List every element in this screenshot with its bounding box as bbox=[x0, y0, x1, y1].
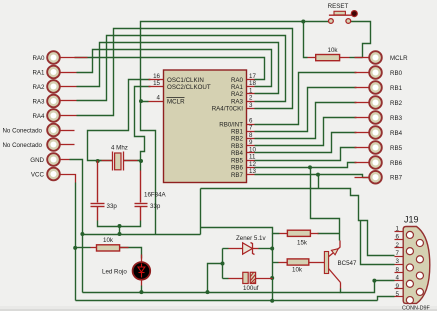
svg-text:RB6: RB6 bbox=[231, 165, 244, 172]
wire branch to J19 pin 3 bbox=[361, 221, 395, 265]
svg-text:RA0: RA0 bbox=[32, 55, 45, 62]
svg-text:No Conectado: No Conectado bbox=[2, 142, 42, 149]
capacitor 100uf electrolytic bbox=[229, 272, 273, 283]
svg-text:RA1: RA1 bbox=[32, 69, 45, 76]
junction node LED to GND rail bbox=[139, 290, 143, 294]
wire RA1 net: left pin to chip pin 18 bbox=[77, 50, 272, 87]
resistor 10k (LED series) bbox=[91, 245, 129, 251]
svg-text:18: 18 bbox=[249, 80, 256, 87]
svg-text:2: 2 bbox=[396, 242, 400, 249]
resistor 15k bbox=[280, 230, 319, 236]
left header connector pins RA0..VCC bbox=[47, 51, 60, 180]
junction node RB6 branch bbox=[308, 165, 312, 169]
svg-text:Led Rojo: Led Rojo bbox=[102, 269, 127, 276]
svg-text:10: 10 bbox=[249, 146, 256, 153]
svg-text:BC547: BC547 bbox=[338, 260, 357, 267]
left connector stubs RA0-RA4 bbox=[61, 57, 88, 59]
VCC stub bbox=[61, 175, 76, 183]
svg-text:10k: 10k bbox=[292, 267, 303, 274]
svg-text:17: 17 bbox=[249, 73, 256, 80]
wire LED bottom to GND rail bbox=[141, 286, 143, 293]
svg-text:RA3: RA3 bbox=[32, 98, 45, 105]
svg-text:OSC1/CLKIN: OSC1/CLKIN bbox=[167, 77, 204, 84]
wire crystal right to cap bbox=[140, 161, 142, 171]
LED D1 Led Rojo bbox=[133, 255, 151, 286]
svg-text:16F84A: 16F84A bbox=[144, 192, 167, 199]
svg-text:4: 4 bbox=[396, 275, 400, 282]
junction node OSC1/crystal left bbox=[96, 159, 100, 163]
wire VCC rail (bottom) bbox=[76, 300, 378, 302]
svg-text:Zener 5.1v: Zener 5.1v bbox=[236, 235, 266, 242]
wire RB6 junction down to emitter bbox=[311, 168, 340, 241]
wire 10k pullup left lead riser bbox=[304, 22, 308, 58]
svg-text:RB4: RB4 bbox=[231, 150, 244, 157]
junction node zener branch to GND rail bbox=[206, 290, 210, 294]
wire RB7 junction down to VPP line bbox=[318, 175, 320, 189]
svg-text:J19: J19 bbox=[404, 215, 419, 225]
transistor Q1 BC547 bbox=[324, 241, 340, 289]
svg-text:7: 7 bbox=[249, 125, 253, 132]
svg-text:16: 16 bbox=[153, 73, 160, 80]
svg-text:6: 6 bbox=[396, 234, 400, 241]
wire VCC rail riser to J19 pin 5 bbox=[378, 297, 395, 301]
capacitor C2 33p (right) bbox=[135, 171, 148, 221]
junction node OSC2/crystal right bbox=[139, 159, 143, 163]
svg-text:MCLR: MCLR bbox=[390, 55, 408, 62]
wire vpp network riser x=200.8 bbox=[200, 189, 202, 235]
right header connector pins MCLR..RB7 bbox=[369, 51, 382, 183]
crystal X1 4Mhz bbox=[98, 152, 141, 171]
wire branch 15k path bbox=[201, 228, 280, 234]
junction node VCC/10k bbox=[73, 246, 77, 250]
wire chip pin8 to RB2 bbox=[255, 103, 357, 139]
wire 15k right lead to transistor emitter line bbox=[318, 233, 340, 235]
wire chip pin6 to RB0 bbox=[255, 73, 357, 125]
junction node zener left bbox=[221, 262, 225, 266]
capacitor C1 33p (left) bbox=[91, 161, 105, 221]
wire OSC1 pin16 to crystal left bbox=[88, 80, 151, 161]
chip right pin stubs bbox=[247, 79, 255, 81]
junction node RB7 branch bbox=[316, 173, 320, 177]
svg-text:RB5: RB5 bbox=[231, 157, 244, 164]
svg-text:RA1: RA1 bbox=[231, 84, 244, 91]
svg-text:3: 3 bbox=[249, 102, 253, 109]
svg-text:10k: 10k bbox=[328, 47, 339, 54]
junction node J19 pin 4 bbox=[372, 279, 376, 283]
junction node MCLR at chip pin 4 bbox=[139, 99, 143, 103]
svg-text:RB7: RB7 bbox=[231, 172, 244, 179]
microcontroller U1 16F84A bbox=[164, 70, 247, 183]
svg-text:RB2: RB2 bbox=[231, 136, 244, 143]
zener diode 5.1v bbox=[229, 243, 273, 255]
wire GND vertical from connector bbox=[70, 160, 83, 293]
reset push button bbox=[329, 11, 358, 24]
svg-text:13: 13 bbox=[249, 168, 256, 175]
resistor 10k (MCLR pullup) bbox=[308, 55, 350, 61]
svg-text:RB4: RB4 bbox=[390, 130, 403, 137]
wire long VPP line y=189 bbox=[201, 189, 395, 256]
wire 10k LED resistor left lead bbox=[76, 247, 91, 249]
svg-text:15: 15 bbox=[153, 80, 160, 87]
svg-text:RA4/T0CKI: RA4/T0CKI bbox=[212, 106, 244, 113]
svg-text:CONN-D9F: CONN-D9F bbox=[402, 306, 431, 311]
svg-text:RA2: RA2 bbox=[32, 84, 45, 91]
wire zener left lead green part bbox=[223, 248, 229, 250]
svg-text:4: 4 bbox=[157, 95, 161, 102]
svg-text:33p: 33p bbox=[107, 203, 118, 210]
svg-text:11: 11 bbox=[249, 154, 256, 161]
chip left pin stubs bbox=[149, 79, 164, 81]
wire MCLR descending to bottom network bbox=[141, 102, 156, 235]
right connector stubs bbox=[355, 57, 369, 59]
svg-text:RB1: RB1 bbox=[390, 85, 403, 92]
junction node zener right bbox=[270, 247, 274, 251]
svg-text:15k: 15k bbox=[297, 240, 308, 247]
GND stub bbox=[61, 159, 70, 161]
svg-text:RB6: RB6 bbox=[390, 160, 403, 167]
svg-text:4 Mhz: 4 Mhz bbox=[111, 145, 128, 152]
red component lead stubs bbox=[61, 58, 369, 183]
svg-text:RB0: RB0 bbox=[390, 70, 403, 77]
wire zener left node bbox=[222, 249, 224, 279]
svg-text:8: 8 bbox=[396, 266, 400, 273]
wire GND rail (lower-middle) bbox=[83, 292, 341, 294]
wire caps center riser bbox=[119, 227, 121, 235]
wire 100uf left lead green part bbox=[223, 278, 229, 280]
svg-text:8: 8 bbox=[249, 132, 253, 139]
svg-text:GND: GND bbox=[30, 157, 44, 164]
wire reset button right to MCLR row bbox=[351, 22, 371, 58]
svg-text:RB3: RB3 bbox=[390, 115, 403, 122]
wire chip pin12 to RB6 bbox=[255, 163, 357, 168]
svg-text:RA0: RA0 bbox=[231, 77, 244, 84]
wire RA2 net: left pin to chip pin 1 bbox=[77, 43, 279, 94]
svg-text:1: 1 bbox=[249, 87, 253, 94]
svg-text:RESET: RESET bbox=[328, 3, 349, 10]
svg-text:10k: 10k bbox=[103, 237, 114, 244]
no-connect stubs bbox=[61, 130, 75, 132]
junction node caps midpoint bbox=[118, 224, 122, 228]
wire chip pin7 to RB1 bbox=[255, 88, 357, 132]
svg-text:No Conectado: No Conectado bbox=[2, 127, 42, 134]
svg-text:RB2: RB2 bbox=[390, 100, 403, 107]
resistor 10k (base) bbox=[273, 259, 325, 265]
svg-text:RA4: RA4 bbox=[32, 113, 45, 120]
wire MCLR net: chip pin 4 up and over to reset/10k bbox=[141, 22, 331, 102]
svg-text:6: 6 bbox=[249, 118, 253, 125]
wire zener left node branch to GND rail bbox=[208, 264, 223, 293]
wire chip pin13 to RB7 bbox=[255, 175, 363, 178]
svg-text:1: 1 bbox=[396, 226, 400, 233]
svg-text:3: 3 bbox=[396, 258, 400, 265]
svg-text:RB0/INT: RB0/INT bbox=[219, 121, 243, 128]
junction node on VCC rail bbox=[270, 299, 274, 303]
svg-text:MCLR: MCLR bbox=[167, 98, 185, 105]
svg-text:33p: 33p bbox=[150, 203, 161, 210]
svg-text:RB3: RB3 bbox=[231, 143, 244, 150]
connector J19 CONN-D9F bbox=[395, 227, 430, 304]
wire RA3 net: left pin to chip pin 2 bbox=[77, 36, 286, 102]
svg-text:RA2: RA2 bbox=[231, 91, 244, 98]
svg-text:RB5: RB5 bbox=[390, 145, 403, 152]
wire chip pin11 to RB5 bbox=[255, 148, 357, 161]
wire collector to GND rail junction and J19 pin4 bbox=[341, 281, 395, 293]
wire RA0 net: left pin to chip pin 17 bbox=[75, 58, 265, 80]
wire RA4 net: left pin to chip pin 3 bbox=[77, 29, 293, 116]
wire chip pin9 to RB3 bbox=[255, 118, 357, 146]
svg-text:OSC2/CLKOUT: OSC2/CLKOUT bbox=[167, 84, 211, 91]
svg-text:9: 9 bbox=[396, 283, 400, 290]
junction node reset/10k branch bbox=[301, 20, 305, 24]
junction node 100uf right bbox=[270, 276, 274, 280]
svg-text:100uf: 100uf bbox=[243, 285, 259, 292]
svg-text:2: 2 bbox=[249, 95, 253, 102]
wire 10k LED resistor right to LED top bbox=[120, 248, 142, 259]
svg-text:VCC: VCC bbox=[31, 171, 45, 178]
junction node caps to GND line bbox=[118, 232, 122, 236]
junction node GND vertical bbox=[80, 232, 84, 236]
svg-text:9: 9 bbox=[249, 139, 253, 146]
svg-text:5: 5 bbox=[396, 291, 400, 298]
svg-text:7: 7 bbox=[396, 250, 400, 257]
wire GND horizontal line to vpp network bbox=[83, 234, 201, 236]
svg-text:12: 12 bbox=[249, 161, 256, 168]
svg-text:RA3: RA3 bbox=[231, 98, 244, 105]
wire OSC2 pin15 to crystal right bbox=[124, 87, 151, 161]
wire MCLR circle green part bbox=[350, 57, 363, 59]
wire 33p caps bottom joining line bbox=[98, 221, 141, 227]
wire RB7 step into terminal bbox=[363, 177, 369, 179]
wire chip pin10 to RB4 bbox=[255, 133, 357, 153]
wire VCC vertical from connector bbox=[75, 183, 77, 301]
svg-text:RB7: RB7 bbox=[390, 175, 403, 182]
svg-text:RB1: RB1 bbox=[231, 129, 244, 136]
wire zener right node vertical bbox=[272, 234, 274, 301]
